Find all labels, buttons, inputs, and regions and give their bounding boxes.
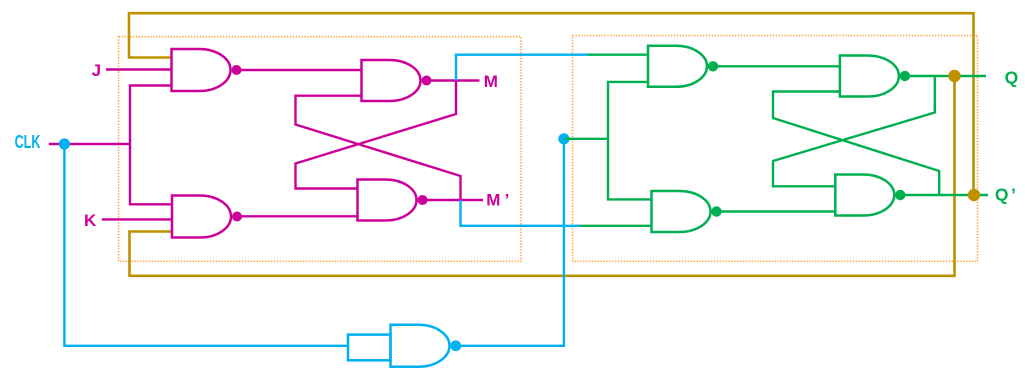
svg-text:’: ’ (1011, 184, 1016, 204)
node: U7 output bubble dot (711, 206, 721, 216)
wire: M into U4 top input (green stub) (588, 54, 648, 56)
node: Q' feedback junction dot (968, 189, 980, 201)
node: inverted clock junction dot (558, 133, 569, 144)
wire: M to slave (cyan) (456, 55, 588, 81)
wire: inverted clock up to slave (456, 139, 564, 346)
wire: M' to slave (cyan) (461, 200, 581, 226)
inverter U9 input tie box (348, 335, 391, 361)
wire: M' into U7 bottom input (green stub) (580, 225, 652, 227)
node: U8 output bubble dot (895, 190, 905, 200)
node: U1 output bubble dot (232, 65, 242, 75)
inverter U9 gate body (391, 325, 450, 367)
nand gate U1 (J input gate) (172, 49, 231, 91)
master section dotted box (119, 37, 521, 262)
wire: J input (106, 68, 172, 70)
wire: CLK stub and line to branch (49, 143, 130, 145)
wire: M' output (423, 199, 484, 201)
nand gate U3 (master latch top) (362, 60, 421, 101)
wire: U1 output to U3 input (237, 69, 362, 71)
node: U3 output bubble dot (422, 76, 432, 86)
wire: U7 output to U8 input (717, 210, 836, 212)
nand gate U6 (slave latch top) (840, 56, 899, 97)
wire: Q feedback to K gate (bottom gold loop) (130, 76, 955, 276)
node: U9 output bubble dot (450, 340, 461, 351)
svg-text:K: K (84, 211, 97, 230)
wire: M output (427, 79, 480, 81)
svg-text:Q: Q (1005, 68, 1019, 88)
wire: clock vertical with stubs (608, 82, 652, 199)
wire: CLK down to inverter (64, 144, 348, 346)
nand gate U7 (slave input bottom) (652, 191, 711, 232)
wire: M' cross-couple to U3 bottom input (296, 96, 461, 200)
node: U5 output bubble dot (418, 195, 428, 205)
node: U6 output bubble dot (900, 71, 910, 81)
wire: U2 output to U5 input (237, 215, 358, 217)
node: CLK junction dot (59, 138, 70, 149)
svg-text:M: M (484, 72, 498, 91)
node: Q feedback junction dot (948, 70, 960, 82)
svg-text:CLK: CLK (15, 132, 41, 152)
svg-text:M: M (486, 190, 500, 209)
wire: M cross-couple to U5 top input (296, 81, 457, 189)
nand gate U8 (slave latch bottom) (835, 174, 894, 215)
wire: Q cross-couple to U8 top input (773, 76, 935, 186)
svg-text:J: J (92, 61, 101, 80)
node: U2 output bubble dot (232, 212, 242, 222)
wire: U4 output to U6 input (713, 65, 840, 67)
wire: Q' cross-couple to U6 bottom input (773, 92, 939, 196)
wire: inverted clock distribution to U4 and U7 (564, 138, 608, 140)
wire: CLK branch to J and K gates (130, 86, 172, 205)
node: U4 output bubble dot (708, 61, 718, 71)
nand gate U2 (K input gate) (172, 196, 231, 238)
nand gate U5 (master latch bottom) (358, 180, 417, 221)
svg-text:Q: Q (995, 184, 1009, 204)
wire: Q' output (900, 194, 988, 196)
nand gate U4 (slave input top) (648, 46, 707, 87)
wire: Q' feedback to J gate (top gold loop) (129, 13, 974, 195)
slave section dotted box (573, 36, 978, 262)
wire: K input (102, 218, 172, 220)
wire: Q output (905, 75, 986, 77)
svg-text:’: ’ (505, 190, 510, 209)
